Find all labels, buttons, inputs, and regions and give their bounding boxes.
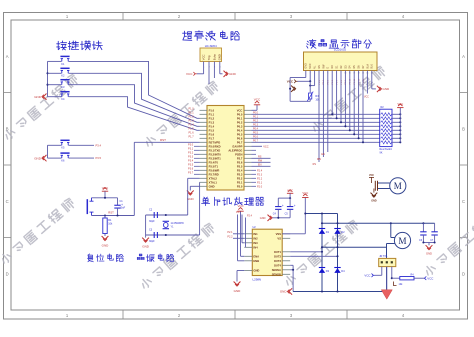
wire K2 to MCU P1.3 xyxy=(69,73,200,122)
svg-text:Echo: Echo xyxy=(212,54,216,61)
svg-text:9K: 9K xyxy=(380,152,383,155)
wire pullup rail xyxy=(399,108,401,143)
wire K4 to MCU P1.5 xyxy=(69,97,200,131)
svg-text:P1.5: P1.5 xyxy=(209,128,215,132)
wire EA to VCC xyxy=(252,145,263,147)
wire EN xyxy=(252,165,271,167)
svg-text:GND: GND xyxy=(218,54,222,60)
diode D4 xyxy=(334,268,340,273)
switch S1 reset button xyxy=(91,198,93,201)
LCD module LCD1602 xyxy=(304,52,378,71)
wire M1 leads xyxy=(378,182,391,184)
capacitor C6 xyxy=(422,223,424,232)
svg-text:SENSA: SENSA xyxy=(272,268,281,272)
svg-text:D: D xyxy=(6,272,9,277)
svg-text:A: A xyxy=(6,54,9,59)
svg-text:P3.5/T1: P3.5/T1 xyxy=(209,164,219,168)
svg-text:P1.0: P1.0 xyxy=(209,108,215,112)
wire ENA to VCC xyxy=(240,211,242,256)
capacitor C5 xyxy=(289,198,291,206)
svg-text:K5: K5 xyxy=(61,146,65,150)
title: LCD display section xyxy=(307,39,316,48)
svg-text:10uF: 10uF xyxy=(120,207,126,210)
wire P0.0 bus xyxy=(252,113,380,115)
svg-text:P1.2: P1.2 xyxy=(209,116,215,120)
wire XTAL1 xyxy=(199,182,201,235)
svg-text:ALE/PROG: ALE/PROG xyxy=(228,148,242,152)
svg-text:P2.1: P2.1 xyxy=(227,231,233,234)
svg-text:SENSB: SENSB xyxy=(272,272,281,276)
svg-text:PSEN: PSEN xyxy=(235,152,242,156)
wire LCD D2 xyxy=(340,71,342,123)
svg-text:XTAL2: XTAL2 xyxy=(209,176,218,180)
wire K6 xyxy=(48,157,62,159)
wire xtal bottom xyxy=(146,234,200,236)
wire: button bus vertical xyxy=(47,61,49,96)
wire P0.1 bus xyxy=(252,117,380,119)
svg-text:OUT2: OUT2 xyxy=(274,254,282,258)
power ground arrow (filled) xyxy=(381,290,392,299)
svg-text:P1.7: P1.7 xyxy=(188,136,194,139)
wire reset top xyxy=(92,197,118,199)
ground GND (button group 1) xyxy=(43,94,46,100)
svg-text:GND: GND xyxy=(280,290,288,294)
switch K5 xyxy=(61,143,63,146)
svg-text:P2.1: P2.1 xyxy=(257,181,263,184)
svg-text:RST: RST xyxy=(160,138,166,142)
wire P0.2 bus xyxy=(252,121,380,123)
svg-text:P0.1: P0.1 xyxy=(253,116,259,119)
power VCC (reset) xyxy=(102,190,108,192)
svg-text:VCC: VCC xyxy=(369,174,374,177)
trimmer R3 10K xyxy=(309,81,311,92)
wire xtal top xyxy=(146,214,188,216)
resistor R4 10k xyxy=(400,277,414,280)
svg-text:P0.0: P0.0 xyxy=(253,112,259,115)
power port VCC (LCD) xyxy=(294,80,296,84)
svg-text:GND: GND xyxy=(34,95,42,99)
power port VCC xyxy=(193,72,195,76)
wire OUT2 xyxy=(290,255,337,257)
pin 4 GND wire xyxy=(219,62,221,74)
svg-text:K2: K2 xyxy=(61,74,65,78)
wire XTAL2 xyxy=(187,178,189,215)
wire MCU VCC xyxy=(252,109,258,111)
ground GND (M1) xyxy=(373,189,375,193)
svg-text:VSS: VSS xyxy=(276,232,282,236)
svg-text:HC-SR04: HC-SR04 xyxy=(205,44,217,48)
svg-text:EN: EN xyxy=(258,164,262,167)
wire P0.6 bus xyxy=(252,137,380,139)
svg-text:D: D xyxy=(462,272,465,277)
wire LCD pin6 xyxy=(327,71,329,153)
switch K3 xyxy=(61,82,63,85)
svg-text:IN2: IN2 xyxy=(253,236,258,240)
wire IN4 xyxy=(245,218,247,248)
wire pin1 xyxy=(381,267,383,276)
diode D3 xyxy=(319,268,325,273)
title: MCU processor xyxy=(202,197,210,206)
wire to VCC xyxy=(414,277,425,279)
wire IN1 xyxy=(233,233,244,235)
svg-text:P0.7: P0.7 xyxy=(253,140,259,143)
svg-text:P3.7/RD: P3.7/RD xyxy=(209,172,219,176)
wire LCD D0 xyxy=(331,71,333,115)
svg-text:P2.2: P2.2 xyxy=(227,236,233,239)
connector JR TX1 xyxy=(379,258,396,266)
svg-text:OUT4: OUT4 xyxy=(274,263,282,267)
svg-text:P1.5: P1.5 xyxy=(188,128,194,131)
wire cap rail top xyxy=(278,197,290,199)
svg-text:P3.5: P3.5 xyxy=(188,164,194,167)
wire IN2 xyxy=(233,237,244,239)
svg-text:P1.1: P1.1 xyxy=(209,112,215,116)
svg-text:VCC: VCC xyxy=(102,186,109,190)
svg-text:D2: D2 xyxy=(341,230,345,234)
switch K1 xyxy=(61,59,63,62)
svg-text:K6: K6 xyxy=(61,159,65,163)
svg-text:GND: GND xyxy=(371,199,377,202)
wire LCD pin16 BLK xyxy=(371,71,373,89)
capacitor C1 10uF xyxy=(117,198,119,205)
ground GND (reset) xyxy=(102,236,109,239)
svg-text:OUT1: OUT1 xyxy=(274,250,282,254)
wire LCD pin15 BLA xyxy=(366,71,368,94)
svg-text:P2.2: P2.2 xyxy=(257,177,263,180)
ground GND (crystal) xyxy=(145,235,147,238)
svg-text:GND: GND xyxy=(253,269,259,273)
svg-text:C: C xyxy=(6,199,9,204)
wire bottom rail xyxy=(293,291,386,293)
svg-text:P1.3: P1.3 xyxy=(209,120,215,124)
svg-text:P0.0: P0.0 xyxy=(237,112,243,116)
svg-text:P0.5: P0.5 xyxy=(237,132,243,136)
svg-text:P1.2: P1.2 xyxy=(188,116,194,119)
wire MCU GND xyxy=(190,185,199,187)
svg-text:P2.3: P2.3 xyxy=(257,173,263,176)
svg-text:GND: GND xyxy=(209,184,215,188)
title: button module xyxy=(57,41,67,50)
svg-text:D1: D1 xyxy=(326,230,330,234)
switch K6 xyxy=(61,155,63,158)
wire K5 xyxy=(48,144,62,146)
wire RST net xyxy=(134,141,199,143)
motor M2 xyxy=(394,232,410,248)
wire diode rail V2 xyxy=(337,214,339,292)
svg-text:P3.2: P3.2 xyxy=(188,152,194,155)
ground GND (caps) xyxy=(268,215,271,221)
svg-text:GND: GND xyxy=(305,63,308,69)
ground GND (L298) xyxy=(234,282,241,285)
svg-text:RS: RS xyxy=(258,156,262,159)
capacitor C4 xyxy=(277,198,279,206)
svg-text:K4: K4 xyxy=(61,97,65,101)
wire motor top rail xyxy=(322,222,435,224)
wire K1 to bus xyxy=(48,60,62,62)
svg-text:K3: K3 xyxy=(61,85,65,89)
wire left leg xyxy=(145,215,147,235)
svg-text:D3: D3 xyxy=(326,269,330,273)
svg-text:10K: 10K xyxy=(315,99,320,102)
svg-text:GND: GND xyxy=(383,87,391,91)
svg-text:P1.7: P1.7 xyxy=(209,136,215,140)
wire LCD pin5 xyxy=(322,71,324,158)
svg-text:P3.0: P3.0 xyxy=(188,144,194,147)
wire RS xyxy=(252,157,271,159)
wire K3 to MCU P1.4 xyxy=(69,85,200,127)
svg-text:VCC: VCC xyxy=(237,108,243,112)
svg-text:P1.4: P1.4 xyxy=(209,124,215,128)
svg-text:P3.4: P3.4 xyxy=(96,143,102,147)
svg-text:+: + xyxy=(294,204,296,208)
svg-text:VCC: VCC xyxy=(309,63,312,68)
svg-text:RW: RW xyxy=(258,160,263,163)
wire RW xyxy=(252,161,271,163)
svg-text:VS: VS xyxy=(277,236,281,240)
svg-text:P2.4: P2.4 xyxy=(237,168,243,172)
svg-text:VCC: VCC xyxy=(202,54,206,60)
wire motor feed mid xyxy=(322,246,387,248)
svg-text:VCC: VCC xyxy=(364,97,369,99)
switch K2 xyxy=(61,71,63,74)
watermark text xyxy=(0,65,474,290)
svg-text:P2.3: P2.3 xyxy=(237,172,243,176)
wire LCD D1 xyxy=(336,71,338,119)
power VCC (ENA) xyxy=(237,210,243,212)
svg-text:11.0592MHz: 11.0592MHz xyxy=(171,222,185,225)
svg-text:M: M xyxy=(398,236,406,246)
svg-text:C: C xyxy=(462,199,465,204)
svg-text:IN3: IN3 xyxy=(253,241,258,245)
svg-text:P2.4: P2.4 xyxy=(247,215,253,218)
svg-text:VCC: VCC xyxy=(302,191,308,195)
title: ultrasonic circuit xyxy=(183,31,192,40)
wire: button bus 2 xyxy=(47,145,49,158)
resistor network RP1 xyxy=(380,109,392,146)
svg-text:XTAL1: XTAL1 xyxy=(209,180,218,184)
svg-text:VCC: VCC xyxy=(287,189,293,193)
svg-text:P3.7: P3.7 xyxy=(188,172,194,175)
wire pin2 xyxy=(386,267,388,290)
svg-text:P3.6: P3.6 xyxy=(188,168,194,171)
wire LCD D7 xyxy=(362,71,364,143)
diode D2 xyxy=(334,229,340,234)
connector J1 xyxy=(377,181,379,191)
wire K1 to MCU P1.2 xyxy=(69,61,200,118)
svg-text:P3.5: P3.5 xyxy=(96,156,102,160)
ground GND (button group 2) xyxy=(43,155,46,161)
svg-text:P0.3: P0.3 xyxy=(253,124,259,127)
svg-text:VCC: VCC xyxy=(186,72,193,76)
svg-text:B: B xyxy=(462,127,465,132)
wire LCD pin3 VL xyxy=(314,71,316,86)
wire IN3 xyxy=(242,242,244,244)
svg-text:GND: GND xyxy=(229,72,237,76)
power VCC (C4C5) xyxy=(287,192,293,194)
svg-text:VCC: VCC xyxy=(263,144,269,148)
svg-text:P0.7: P0.7 xyxy=(237,140,243,144)
wire RST node xyxy=(92,215,135,217)
wire OUT1 xyxy=(290,251,322,253)
svg-text:P1.0: P1.0 xyxy=(188,108,194,111)
svg-text:RS: RS xyxy=(313,163,317,166)
svg-text:P2.0: P2.0 xyxy=(237,184,243,188)
svg-text:RS: RS xyxy=(318,65,321,69)
svg-text:P3.0/RXD: P3.0/RXD xyxy=(209,144,221,148)
ground GND (MCU) xyxy=(187,191,194,194)
svg-text:P0.3: P0.3 xyxy=(237,124,243,128)
wire VSS to VCC xyxy=(282,233,305,235)
title: reset circuit xyxy=(88,254,94,262)
wire top rail xyxy=(305,213,337,215)
svg-text:Trig: Trig xyxy=(207,55,211,60)
wire cap rail bottom xyxy=(272,217,290,219)
svg-text:P1.6: P1.6 xyxy=(209,132,215,136)
wire LCD pin2 VCC xyxy=(309,71,311,82)
svg-text:EN: EN xyxy=(321,153,325,156)
ground GND (caps C6C7) xyxy=(426,245,433,248)
motor M1 xyxy=(390,178,406,194)
svg-text:BLK: BLK xyxy=(371,64,374,69)
svg-text:LCD1602: LCD1602 xyxy=(334,48,347,52)
crystal Y1 11.0592MHz xyxy=(163,220,169,222)
svg-text:30pF: 30pF xyxy=(149,240,155,243)
svg-text:P3.1/TXD: P3.1/TXD xyxy=(209,148,221,152)
pin 3 Echo wire xyxy=(213,62,215,79)
switch K4 xyxy=(61,94,63,97)
svg-text:P3.6/WR: P3.6/WR xyxy=(209,168,220,172)
wire P0.5 bus xyxy=(252,133,380,135)
wire LCD D6 xyxy=(358,71,360,139)
ground (LCD contrast) xyxy=(291,86,294,92)
svg-text:RST/VPD: RST/VPD xyxy=(209,140,221,144)
svg-text:P1.4: P1.4 xyxy=(188,124,194,127)
svg-text:30pF: 30pF xyxy=(149,220,155,223)
svg-text:VCC: VCC xyxy=(397,102,403,106)
svg-text:K1: K1 xyxy=(61,62,65,66)
svg-text:P2.4: P2.4 xyxy=(257,169,263,172)
node junctions on bus xyxy=(46,72,48,74)
svg-text:VCC: VCC xyxy=(237,204,243,208)
svg-text:P0.4: P0.4 xyxy=(253,128,259,131)
wire K4 to bus xyxy=(48,96,62,98)
svg-text:P0.4: P0.4 xyxy=(237,128,243,132)
svg-text:GND: GND xyxy=(260,216,266,220)
capacitor C3 30pF xyxy=(153,232,155,238)
svg-text:P2.2: P2.2 xyxy=(237,176,243,180)
svg-text:ENB: ENB xyxy=(253,259,259,263)
svg-text:RST: RST xyxy=(108,210,114,214)
ground GND (backlight) xyxy=(377,86,380,92)
svg-text:OUT3: OUT3 xyxy=(274,259,282,263)
svg-text:GND: GND xyxy=(234,289,242,293)
power VCC (MCU) xyxy=(254,104,260,106)
wire diode rail V1 xyxy=(321,214,323,292)
diode D1 xyxy=(319,229,325,234)
wire M2 bottom lead xyxy=(387,243,395,245)
wire LCD pin1 GND loop xyxy=(305,71,307,78)
wire caps bottom xyxy=(423,242,434,244)
svg-text:JR TX1: JR TX1 xyxy=(379,255,388,258)
wire P0.7 bus xyxy=(252,141,380,143)
svg-text:ENA: ENA xyxy=(253,254,259,258)
svg-text:BLA: BLA xyxy=(366,64,369,69)
svg-text:P3.3/INT1: P3.3/INT1 xyxy=(209,156,222,160)
wire pin3 xyxy=(391,267,393,279)
svg-text:P0.2: P0.2 xyxy=(237,120,243,124)
svg-text:VCC: VCC xyxy=(254,98,261,102)
svg-text:IN1: IN1 xyxy=(253,232,258,236)
svg-text:P1.1: P1.1 xyxy=(188,112,194,115)
capacitor C2 30pF xyxy=(153,212,155,218)
wire L298 GND xyxy=(237,270,244,272)
wire OUT4/SENSA xyxy=(290,264,293,266)
svg-text:D4: D4 xyxy=(341,269,345,273)
svg-text:EA/VPP: EA/VPP xyxy=(233,144,243,148)
svg-text:P1.3: P1.3 xyxy=(188,120,194,123)
svg-text:VCC: VCC xyxy=(427,276,433,280)
wire LCD pin4 xyxy=(318,71,320,163)
svg-text:P0.6: P0.6 xyxy=(237,136,243,140)
svg-text:P3.2/INT0: P3.2/INT0 xyxy=(209,152,222,156)
svg-text:A: A xyxy=(462,54,465,59)
svg-text:P0.5: P0.5 xyxy=(253,132,259,135)
wire P0.3 bus xyxy=(252,125,380,127)
power port VCC (blue) xyxy=(372,274,374,278)
pin 2 Trig wire xyxy=(208,62,210,85)
svg-text:P0.6: P0.6 xyxy=(253,136,259,139)
svg-text:P2.5: P2.5 xyxy=(237,164,243,168)
svg-text:P0.2: P0.2 xyxy=(253,120,259,123)
ultrasonic module U3 HC-SR04 xyxy=(200,48,222,62)
capacitor C7 xyxy=(434,223,436,232)
wire P0.4 bus xyxy=(252,129,380,131)
power VCC (pullups) xyxy=(397,107,403,109)
svg-text:P2.7: P2.7 xyxy=(237,156,243,160)
svg-text:P2.1: P2.1 xyxy=(237,180,243,184)
svg-text:P0.1: P0.1 xyxy=(237,116,243,120)
wire M2 top lead xyxy=(391,237,395,239)
svg-text:P2.0: P2.0 xyxy=(257,185,263,188)
svg-text:M: M xyxy=(394,181,402,191)
svg-text:L298N: L298N xyxy=(253,278,262,282)
wire ENB xyxy=(237,215,239,261)
svg-text:GND: GND xyxy=(102,244,110,248)
svg-text:+: + xyxy=(282,204,284,208)
svg-text:P2.6: P2.6 xyxy=(237,160,243,164)
svg-text:P3.1: P3.1 xyxy=(188,148,194,151)
motor driver U2 L298N xyxy=(252,229,282,275)
pin 1 VCC wire xyxy=(203,62,205,74)
MCU U1 AT89C51 xyxy=(207,106,244,191)
title: crystal circuit xyxy=(137,254,144,260)
svg-text:P1.6: P1.6 xyxy=(188,132,194,135)
svg-text:P3.4: P3.4 xyxy=(188,160,194,163)
wire K2 to bus xyxy=(48,72,62,74)
svg-text:VCC: VCC xyxy=(287,80,294,84)
svg-text:GND: GND xyxy=(142,245,150,249)
svg-text:GND: GND xyxy=(34,156,42,160)
svg-text:P3.3: P3.3 xyxy=(188,156,194,159)
wire LCD D3 xyxy=(344,71,346,127)
ground GND (ultrasonic) xyxy=(224,71,227,77)
wire LCD D4 xyxy=(349,71,351,131)
svg-text:VCC: VCC xyxy=(364,274,370,278)
svg-text:P3.4/T0: P3.4/T0 xyxy=(209,160,219,164)
svg-text:GND: GND xyxy=(426,251,432,255)
resistor R1 10k xyxy=(104,216,106,219)
svg-text:IN4: IN4 xyxy=(253,245,258,249)
